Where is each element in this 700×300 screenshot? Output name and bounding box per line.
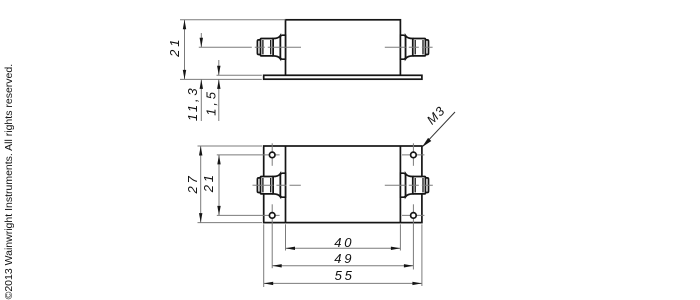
plan view: right SMA connector bbox=[400, 173, 428, 197]
dimension 11,3 line bbox=[200, 33, 202, 47]
M3 leader line bbox=[422, 112, 455, 147]
extension lines: body edges (40 dim) bbox=[285, 224, 287, 250]
svg-text:27: 27 bbox=[185, 173, 200, 194]
bottom-right M3 hole crosshair bbox=[402, 214, 424, 216]
top-right M3 mounting hole bbox=[411, 152, 417, 158]
svg-text:21: 21 bbox=[167, 37, 182, 58]
top view: left connector centerline bbox=[199, 46, 301, 48]
top-left M3 mounting hole bbox=[269, 152, 275, 158]
svg-text:©2013 Wainwright Instruments.: ©2013 Wainwright Instruments. All rights… bbox=[3, 64, 15, 300]
plan view: body left edge bbox=[285, 146, 287, 223]
plan view: right connector centerline bbox=[385, 184, 433, 186]
top view: filter body outline bbox=[286, 20, 401, 76]
extension lines: plate edges (55 dim) bbox=[263, 224, 265, 287]
extension line: flange bottom bbox=[180, 78, 262, 80]
svg-text:1,5: 1,5 bbox=[204, 89, 219, 115]
bottom-left M3 mounting hole bbox=[269, 213, 275, 219]
top view: right connector centerline bbox=[385, 46, 433, 48]
dimension 21 (height) line bbox=[184, 20, 186, 80]
svg-text:11,3: 11,3 bbox=[185, 86, 200, 122]
plan view: left connector centerline bbox=[253, 184, 301, 186]
plan view: left SMA connector bbox=[257, 173, 285, 197]
extension line: body top bbox=[180, 19, 286, 21]
svg-text:21: 21 bbox=[201, 172, 216, 193]
dimension 49 line bbox=[272, 265, 413, 267]
extension line: flange top bbox=[217, 74, 262, 76]
dimension 1,5 line bbox=[218, 60, 220, 75]
extension line: plate bottom (27 dim) bbox=[198, 222, 263, 224]
plan view: body right edge bbox=[399, 146, 401, 223]
top view: left SMA connector bbox=[257, 35, 285, 59]
top-left M3 hole crosshair bbox=[217, 154, 280, 156]
top-right M3 hole crosshair bbox=[402, 154, 424, 156]
bottom-right M3 mounting hole bbox=[411, 213, 417, 219]
bottom-left M3 hole crosshair bbox=[217, 214, 280, 216]
svg-text:40: 40 bbox=[334, 235, 354, 250]
dimension 21 (hole spacing) line bbox=[218, 155, 220, 216]
svg-text:49: 49 bbox=[334, 251, 354, 266]
extension line: plate top (27 dim) bbox=[198, 145, 263, 147]
plan view: base plate outline bbox=[264, 146, 422, 223]
dimension 55 line bbox=[264, 282, 422, 284]
top view: right SMA connector bbox=[400, 35, 428, 59]
svg-text:55: 55 bbox=[335, 268, 355, 283]
dimension 27 line bbox=[200, 146, 202, 223]
top view: mounting flange (side) bbox=[264, 75, 422, 79]
dimension 40 line bbox=[286, 247, 401, 249]
